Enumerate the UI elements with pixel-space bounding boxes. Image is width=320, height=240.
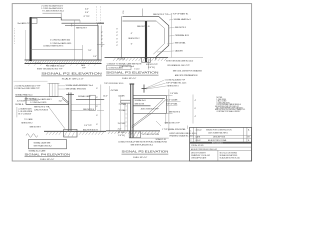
svg-text:TO CASE: TO CASE (24, 118, 33, 121)
svg-text:SCALE: 3/8″=1′-0″: SCALE: 3/8″=1′-0″ (62, 77, 84, 80)
d1 ground hatch (25, 60, 101, 66)
d4 right annotation (165, 93, 197, 125)
svg-text:1 COND No.6 AWG TYP: 1 COND No.6 AWG TYP (165, 79, 186, 82)
svg-text:SEE SITE PLAN DWG E-2: SEE SITE PLAN DWG E-2 (131, 143, 154, 146)
d2 foundation (142, 58, 151, 63)
svg-text:SEE NOTE: SEE NOTE (135, 104, 145, 106)
d4 foundation note line (129, 133, 169, 138)
svg-text:JOB No. 02-105: JOB No. 02-105 (191, 145, 203, 147)
svg-text:SIGNAL HEAD No.4: SIGNAL HEAD No.4 (15, 93, 33, 96)
svg-text:SIGNAL HEAD No.3: SIGNAL HEAD No.3 (174, 18, 192, 21)
svg-text:2 COND No.6 AWG: 2 COND No.6 AWG (108, 67, 124, 70)
svg-text:SCALE: 3/8″=1′-0″: SCALE: 3/8″=1′-0″ (122, 77, 136, 80)
svg-text:2 COND No.6 AWG 600 V: 2 COND No.6 AWG 600 V (30, 98, 52, 101)
svg-text:CONTRACTOR SHALL VERIFY: CONTRACTOR SHALL VERIFY (216, 110, 241, 113)
d1 mast (30, 17, 32, 61)
svg-text:SEE DETAIL: SEE DETAIL (175, 42, 187, 45)
svg-text:SEE DETAIL THIS DWG: SEE DETAIL THIS DWG (66, 88, 87, 91)
d3 diagonal member (62, 97, 69, 104)
svg-text:CHKD APPD DATE: CHKD APPD DATE (191, 157, 207, 160)
d3 platform level line (76, 98, 104, 100)
d3 ground hatch (46, 132, 104, 135)
svg-text:JCT BOX: JCT BOX (17, 101, 26, 103)
d1 left annotation (15, 22, 32, 43)
d4 signal head post (142, 85, 147, 93)
d2 top chords (123, 16, 159, 21)
d1 top note text (41, 4, 64, 13)
d1 mast top bracket (31, 18, 37, 23)
svg-text:ANCHOR BOLTS: ANCHOR BOLTS (83, 128, 99, 131)
d2 left edge (120, 16, 122, 57)
svg-text:TO JUNCTION BOX No.2: TO JUNCTION BOX No.2 (42, 11, 64, 13)
d2 interior text (128, 25, 150, 45)
svg-text:SEE NOTE 4 TYP: SEE NOTE 4 TYP (34, 107, 50, 109)
svg-text:1′-0″ TYP: 1′-0″ TYP (84, 125, 92, 127)
svg-text:SEE NOTE 7: SEE NOTE 7 (76, 28, 88, 30)
svg-text:SIGNAL CASE: SIGNAL CASE (78, 95, 91, 98)
d3 signal head box (48, 83, 60, 96)
svg-text:1 COND No.6 AWG 600 V: 1 COND No.6 AWG 600 V (41, 7, 63, 10)
d4 mast (130, 84, 135, 138)
svg-text:TOP OF MAST EL: TOP OF MAST EL (173, 13, 189, 16)
svg-text:SEE NOTE 6: SEE NOTE 6 (83, 109, 95, 111)
d3 left annotation column (14, 81, 48, 124)
svg-text:SEE NOTE 3 TYP: SEE NOTE 3 TYP (153, 14, 169, 16)
svg-text:SIGNAL P4 ELEVATION: SIGNAL P4 ELEVATION (25, 152, 71, 156)
svg-text:SEE NOTE 9: SEE NOTE 9 (30, 127, 42, 129)
d4 arm (133, 96, 166, 114)
d4 title (122, 150, 169, 159)
svg-text:SCALE: 3/8″=1′-0″: SCALE: 3/8″=1′-0″ (133, 156, 147, 159)
svg-text:SEE NOTE 6 TYP: SEE NOTE 6 TYP (165, 123, 181, 125)
d3 pole (66, 93, 74, 132)
svg-text:DATE: DATE (196, 136, 201, 139)
d1 interior text (43, 38, 72, 47)
svg-text:SEE NOTE 3: SEE NOTE 3 (167, 85, 179, 87)
svg-text:TOP OF MAST EL 114.5: TOP OF MAST EL 114.5 (166, 82, 187, 85)
svg-text:7′-0″: 7′-0″ (88, 50, 92, 52)
d3 chords (15, 97, 69, 105)
svg-text:2: 2 (190, 140, 191, 142)
svg-text:CONDUIT STUB-UP SEE NOTE 8: CONDUIT STUB-UP SEE NOTE 8 (118, 142, 148, 144)
general notes text (215, 97, 245, 113)
d2 top note text (121, 9, 169, 17)
d3 foundation (64, 129, 77, 137)
svg-text:SEE NOTE 2: SEE NOTE 2 (128, 38, 140, 40)
svg-text:4′-6″ MIN: 4′-6″ MIN (111, 90, 119, 92)
svg-text:CLEAR: CLEAR (118, 94, 125, 97)
svg-text:JUNCTION BOX TYP: JUNCTION BOX TYP (141, 108, 160, 110)
svg-text:1 COND No.8 GRD WIRE TYP: 1 COND No.8 GRD WIRE TYP (14, 88, 41, 90)
svg-text:AND SITE PREPARATION: AND SITE PREPARATION (175, 74, 198, 77)
svg-text:ISSUED FOR CONSTRUCTION: ISSUED FOR CONSTRUCTION (206, 130, 232, 132)
svg-text:FINISHED GRADE EL 100.5: FINISHED GRADE EL 100.5 (170, 134, 195, 137)
d1 right dim text (85, 8, 103, 48)
svg-text:AS-BUILT REV 2 FINAL: AS-BUILT REV 2 FINAL (208, 139, 227, 142)
d2 ground hatch (113, 58, 167, 61)
d2 left dim mini column (116, 29, 118, 47)
d3 guy wire (48, 106, 65, 129)
svg-text:JUNCTION BOX: JUNCTION BOX (34, 109, 49, 111)
svg-text:1 COND No.8 AWG GRD: 1 COND No.8 AWG GRD (50, 42, 72, 45)
svg-text:1′-6″ SQ: 1′-6″ SQ (148, 67, 155, 69)
svg-text:FIN GRADE EL 100.0: FIN GRADE EL 100.0 (46, 65, 65, 68)
sheet border (12, 4, 251, 161)
d4 ladder (125, 103, 128, 131)
svg-text:SIGNAL P3 ELEVATION: SIGNAL P3 ELEVATION (106, 70, 159, 74)
d3 ground line (44, 130, 106, 132)
d1 base dim (31, 45, 97, 60)
svg-text:2-#6 AWG 600V: 2-#6 AWG 600V (18, 108, 32, 111)
svg-text:SEE DETAIL B: SEE DETAIL B (137, 25, 150, 28)
svg-text:EL 100: EL 100 (35, 63, 42, 65)
svg-text:REVISIONS: REVISIONS (212, 142, 223, 144)
d3/d4 mid annotation column (96, 86, 126, 131)
svg-text:4 BOLTS TYP: 4 BOLTS TYP (146, 64, 158, 66)
svg-text:CONDUIT SEE NOTE 3: CONDUIT SEE NOTE 3 (43, 46, 64, 48)
svg-text:IN 1″ CONDUIT: IN 1″ CONDUIT (18, 114, 32, 116)
d4 top-right annotation (142, 79, 188, 93)
svg-text:EXIST GROUND LINE EL 100.0: EXIST GROUND LINE EL 100.0 (166, 61, 194, 63)
d2 right annotation (173, 13, 192, 53)
d2 housing outline (156, 16, 169, 59)
d2 grade annotation (166, 58, 203, 77)
d4 left bracket (121, 100, 130, 103)
d2 right leaders (157, 13, 175, 57)
svg-text:EL 100.2: EL 100.2 (118, 132, 126, 134)
d3 right dim lines (97, 85, 104, 132)
svg-text:TOP OF FDN EL 101.0: TOP OF FDN EL 101.0 (104, 83, 124, 85)
d3 note box (29, 140, 67, 149)
svg-text:4-12-02: 4-12-02 (196, 130, 202, 132)
d4 ground line (106, 130, 160, 132)
d4 ground hatch (108, 131, 160, 134)
svg-text:10′-0″: 10′-0″ (103, 95, 108, 97)
svg-text:TYP ALL SIGNAL FDNS: TYP ALL SIGNAL FDNS (147, 141, 168, 144)
d2 note box above title (106, 66, 139, 71)
svg-text:LADDER: LADDER (175, 50, 183, 53)
d3 interior text (30, 98, 52, 111)
d1 right edge (98, 23, 99, 60)
svg-text:SCALE: 3/8″=1′-0″: SCALE: 3/8″=1′-0″ (40, 158, 54, 161)
svg-text:SITE PLAN DWG E-2: SITE PLAN DWG E-2 (34, 145, 53, 148)
svg-text:SCALE 1:10: SCALE 1:10 (156, 138, 167, 141)
svg-text:FIN GRADE EL 100.5 TYP: FIN GRADE EL 100.5 TYP (168, 64, 191, 67)
d1 right dim line (97, 6, 105, 61)
d2 title (106, 70, 159, 79)
svg-text:SEE NOTE 5: SEE NOTE 5 (175, 27, 187, 29)
svg-text:1 TYP SIGNAL FDN DETAIL: 1 TYP SIGNAL FDN DETAIL (162, 128, 187, 131)
svg-text:3′-6″ MIN: 3′-6″ MIN (118, 123, 126, 125)
svg-text:EL 100.0: EL 100.0 (118, 58, 126, 60)
d2 housing inner line (153, 21, 164, 54)
svg-text:DETAIL A: DETAIL A (15, 103, 24, 106)
svg-text:1 COND No.8 GRD: 1 COND No.8 GRD (30, 102, 47, 104)
d2 base text (107, 58, 159, 69)
svg-text:8″ TYP: 8″ TYP (84, 16, 91, 18)
d4 strut to mast (132, 113, 152, 127)
svg-text:SIGNAL HEAD ASSEMBLY No.4: SIGNAL HEAD ASSEMBLY No.4 (66, 84, 94, 87)
d1 top chord (30, 17, 104, 25)
svg-text:2 COND No.6 AWG 600: 2 COND No.6 AWG 600 (50, 38, 71, 41)
svg-text:DRAWN BY J.DOE 4-02: DRAWN BY J.DOE 4-02 (191, 154, 210, 157)
d4 foundation (129, 131, 140, 138)
svg-text:AS BUILT PER FIELD DWG 6-02: AS BUILT PER FIELD DWG 6-02 (191, 148, 217, 151)
svg-text:EXIST GROUND EL 99.5 TYP: EXIST GROUND EL 99.5 TYP (37, 69, 63, 71)
d1 interior vertical (73, 20, 75, 60)
svg-text:SIGNAL ELEVATIONS: SIGNAL ELEVATIONS (220, 154, 238, 157)
svg-text:7′-6″ MIN: 7′-6″ MIN (119, 104, 127, 106)
svg-text:1: 1 (190, 130, 191, 132)
svg-text:4′-0″: 4′-0″ (85, 8, 89, 10)
svg-text:1′-0″: 1′-0″ (59, 100, 63, 102)
svg-text:TOP OF RAIL: TOP OF RAIL (166, 103, 179, 106)
d1 ground line (25, 60, 102, 63)
d4 arm interior text (135, 99, 160, 110)
svg-text:1′-6″ SQ: 1′-6″ SQ (118, 135, 125, 137)
d2 mast (145, 21, 147, 62)
d1 title (41, 72, 102, 81)
svg-text:TO RAIL: TO RAIL (119, 109, 127, 112)
svg-text:SIGNAL CASE SEE: SIGNAL CASE SEE (34, 141, 51, 144)
svg-text:SIGNAL No.5: SIGNAL No.5 (135, 99, 147, 102)
d4 bottom text (118, 132, 167, 147)
svg-text:2′-0″: 2′-0″ (118, 129, 122, 131)
svg-text:SEE NOTE 6: SEE NOTE 6 (169, 111, 181, 113)
svg-text:6-5-02: 6-5-02 (196, 140, 201, 142)
d2 ground line (105, 57, 169, 59)
svg-text:TERMINAL BOX: TERMINAL BOX (175, 34, 190, 37)
svg-text:SEE NOTE 2: SEE NOTE 2 (21, 122, 33, 124)
d3 case box (90, 95, 96, 110)
svg-text:100% SUBMITTAL REV 1: 100% SUBMITTAL REV 1 (208, 131, 228, 134)
svg-text:1′-6″ MIN: 1′-6″ MIN (170, 93, 178, 95)
d3 title (25, 152, 71, 161)
svg-text:No.6 AWG TYP: No.6 AWG TYP (18, 22, 32, 25)
svg-text:DESCRIPTION: DESCRIPTION (213, 137, 226, 139)
svg-text:1′-6″ DIA CONC FDN: 1′-6″ DIA CONC FDN (142, 133, 160, 136)
svg-text:SIGNAL P2 ELEVATION: SIGNAL P2 ELEVATION (41, 72, 102, 76)
svg-text:1′-0″: 1′-0″ (93, 56, 97, 58)
d4 grade annotation (170, 133, 198, 138)
d4 arm diagonals (149, 100, 166, 114)
svg-text:SIGNAL P5 ELEVATION: SIGNAL P5 ELEVATION (122, 150, 169, 154)
svg-text:3′-6″: 3′-6″ (85, 12, 89, 14)
d3 lower rail (71, 104, 101, 110)
d3 top-right annotation (58, 84, 94, 91)
svg-text:SEE CIVIL DWGS FOR GRADING: SEE CIVIL DWGS FOR GRADING (173, 69, 203, 72)
svg-text:SCALE AS NOTED E-105: SCALE AS NOTED E-105 (220, 157, 240, 160)
d4 right dim line (166, 89, 173, 131)
